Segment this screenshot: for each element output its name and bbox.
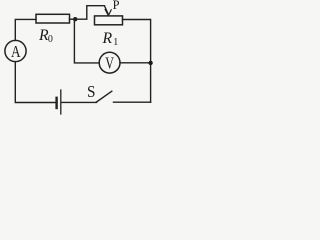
label R0 xyxy=(38,27,53,45)
ammeter A xyxy=(5,40,26,61)
rheostat R1 xyxy=(95,16,123,25)
svg-text:R: R xyxy=(102,30,113,47)
voltmeter V xyxy=(99,52,120,73)
svg-text:V: V xyxy=(105,53,114,72)
resistor R0 xyxy=(36,14,70,23)
wire node to slider xyxy=(75,6,104,20)
wire ammeter down to battery xyxy=(15,62,55,103)
switch S blade xyxy=(97,91,112,102)
wire node down to voltmeter xyxy=(74,19,99,63)
wire battery to switch xyxy=(62,101,97,103)
svg-text:S: S xyxy=(87,82,96,101)
wire top-left corner to R0 xyxy=(15,19,36,40)
svg-text:P: P xyxy=(113,0,120,12)
node junction dot xyxy=(73,17,77,21)
wire switch to bottom-right corner xyxy=(114,101,151,103)
wire voltmeter to right side xyxy=(120,62,151,64)
svg-text:1: 1 xyxy=(113,37,118,48)
svg-text:0: 0 xyxy=(48,34,53,45)
label V xyxy=(105,53,114,72)
wire R0 to node xyxy=(70,18,76,20)
svg-text:A: A xyxy=(11,42,21,61)
label S xyxy=(87,82,96,101)
label P xyxy=(113,0,120,12)
label A xyxy=(11,42,21,61)
node junction dot right xyxy=(148,61,152,65)
battery positive plate xyxy=(60,90,62,114)
battery negative plate xyxy=(55,98,57,108)
wire R1 to top-right corner down right side xyxy=(123,20,151,103)
label R1 xyxy=(102,30,119,48)
slider P arrow xyxy=(104,6,111,16)
